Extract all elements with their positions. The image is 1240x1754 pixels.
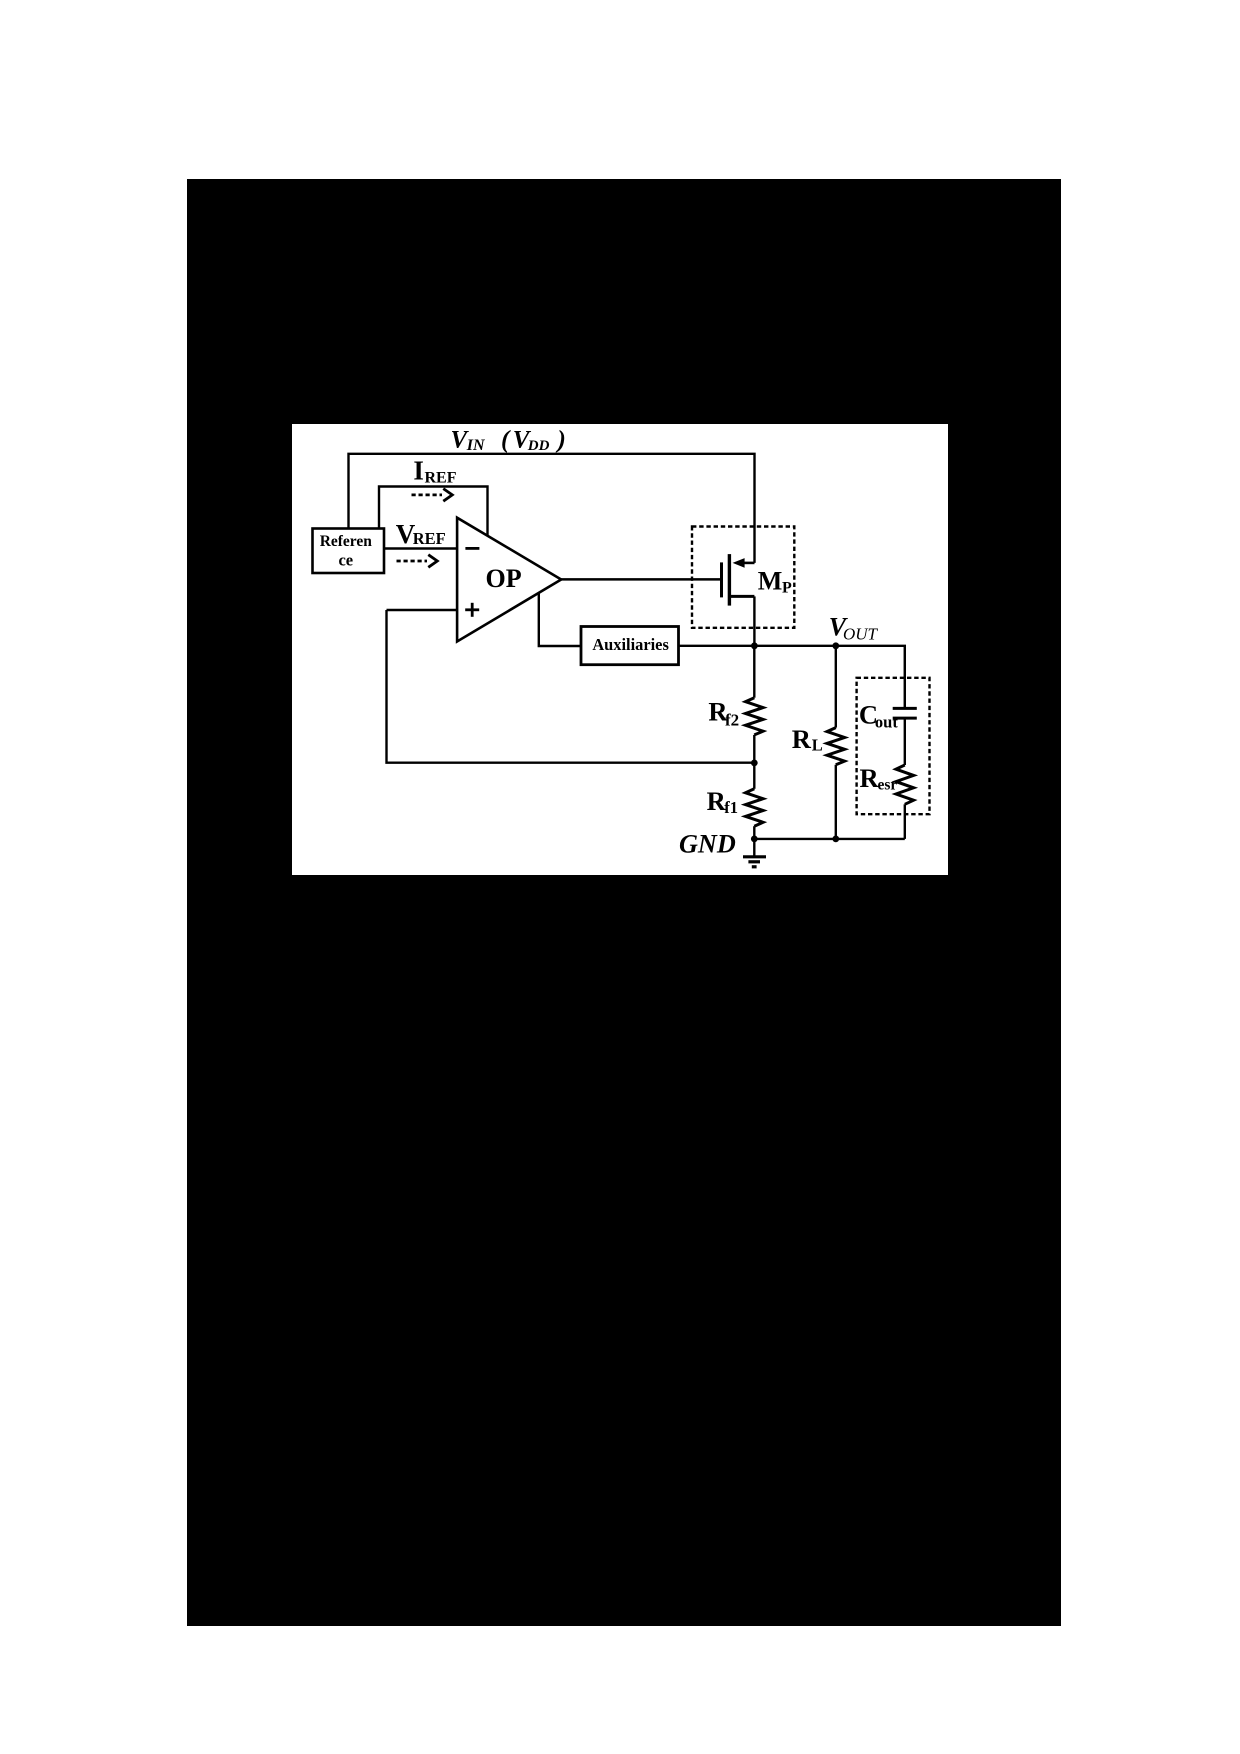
Mp drain lead: [729, 595, 754, 598]
node: feedback junction: [751, 760, 758, 767]
svg-text:L: L: [812, 735, 823, 754]
wire: op-amp output to Mp gate: [561, 578, 720, 581]
svg-text:IN: IN: [466, 437, 486, 454]
wire: VIN top rail: [349, 454, 755, 563]
svg-text:Auxiliaries: Auxiliaries: [592, 635, 669, 654]
dashed arrow IREF: [412, 489, 453, 502]
label VREF: [396, 519, 446, 549]
svg-text:R: R: [792, 724, 812, 754]
svg-text:DD: DD: [527, 438, 550, 454]
svg-text:esr: esr: [878, 776, 898, 793]
dashed enclosure Cout/Resr: [857, 678, 930, 814]
node: Rf1/ground junction: [751, 836, 758, 843]
capacitor Cout: [893, 646, 917, 718]
svg-text:ce: ce: [338, 550, 353, 569]
label VIN (VDD): [451, 427, 566, 454]
label Rf1: [707, 786, 738, 817]
Mp source lead with arrow: [741, 562, 755, 565]
svg-text:Referen: Referen: [320, 533, 373, 550]
op-amp minus input mark: [465, 547, 479, 550]
wire: ground rail: [754, 838, 905, 840]
wire: op-amp to Auxiliaries: [539, 593, 581, 646]
svg-text:M: M: [758, 567, 783, 596]
svg-text:out: out: [875, 712, 898, 731]
node: VOUT / RL junction: [832, 642, 839, 649]
svg-text:f1: f1: [724, 798, 738, 817]
transistor Q Mp (PMOS): [722, 554, 793, 646]
wire: IREF loop: [379, 487, 488, 537]
black page block: [187, 179, 1061, 1626]
svg-text:GND: GND: [679, 830, 736, 859]
white schematic panel: [292, 424, 948, 875]
svg-text:REF: REF: [413, 529, 446, 548]
Mp channel bar: [728, 554, 731, 606]
transistor Mp dashed enclosure: [692, 527, 794, 628]
block Reference: [313, 529, 385, 574]
label Mp: [758, 567, 792, 597]
svg-text:f2: f2: [725, 711, 739, 730]
block Auxiliaries: [581, 627, 679, 665]
label Rf2: [708, 697, 739, 730]
label Resr: [860, 763, 898, 794]
label RL: [792, 724, 823, 755]
wire: feedback from Rf node to plus input: [387, 610, 755, 763]
op-amp plus input mark: [465, 608, 479, 611]
wire: VOUT rail: [679, 646, 905, 707]
svg-text:OP: OP: [486, 564, 522, 593]
resistor Rf2: [746, 646, 764, 763]
Mp gate bar: [720, 562, 723, 597]
op-amp U1 OP: [457, 518, 561, 642]
node: Mp drain / VOUT junction: [751, 642, 758, 649]
resistor Resr: [896, 718, 914, 839]
svg-text:(: (: [501, 427, 511, 454]
dashed arrow VREF: [397, 555, 438, 568]
svg-text:REF: REF: [425, 469, 457, 486]
label VOUT: [829, 613, 879, 644]
svg-text:OUT: OUT: [843, 625, 879, 644]
resistor Rf1: [746, 763, 764, 839]
label IREF: [413, 456, 456, 487]
wire: non-inverting input: [387, 609, 458, 611]
wire: VREF to op-amp inverting input: [384, 547, 457, 549]
svg-text:): ): [556, 427, 566, 454]
wire: Mp drain down to VOUT rail: [753, 596, 755, 645]
node: RL/ground junction: [832, 836, 839, 843]
svg-text:I: I: [413, 456, 424, 486]
svg-text:P: P: [782, 580, 792, 597]
label Cout: [859, 699, 898, 731]
ground symbol: [743, 839, 766, 867]
resistor RL: [827, 646, 845, 839]
svg-text:R: R: [860, 763, 880, 793]
